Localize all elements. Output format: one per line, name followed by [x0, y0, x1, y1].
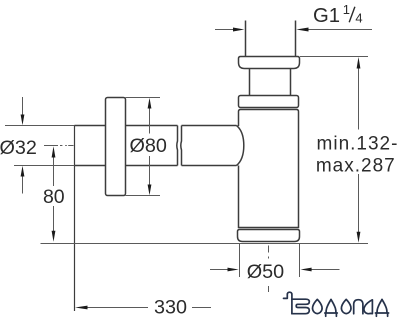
svg-text:Ø80: Ø80: [130, 135, 167, 157]
svg-text:G1: G1: [313, 5, 340, 27]
svg-text:330: 330: [154, 296, 187, 318]
svg-text:1: 1: [343, 2, 350, 17]
svg-text:Ø32: Ø32: [0, 137, 37, 159]
svg-text:4: 4: [355, 11, 362, 26]
svg-text:max.287: max.287: [316, 155, 396, 176]
svg-text:min.132-: min.132-: [317, 134, 399, 155]
svg-text:Ø50: Ø50: [247, 261, 284, 283]
svg-text:80: 80: [43, 186, 65, 208]
